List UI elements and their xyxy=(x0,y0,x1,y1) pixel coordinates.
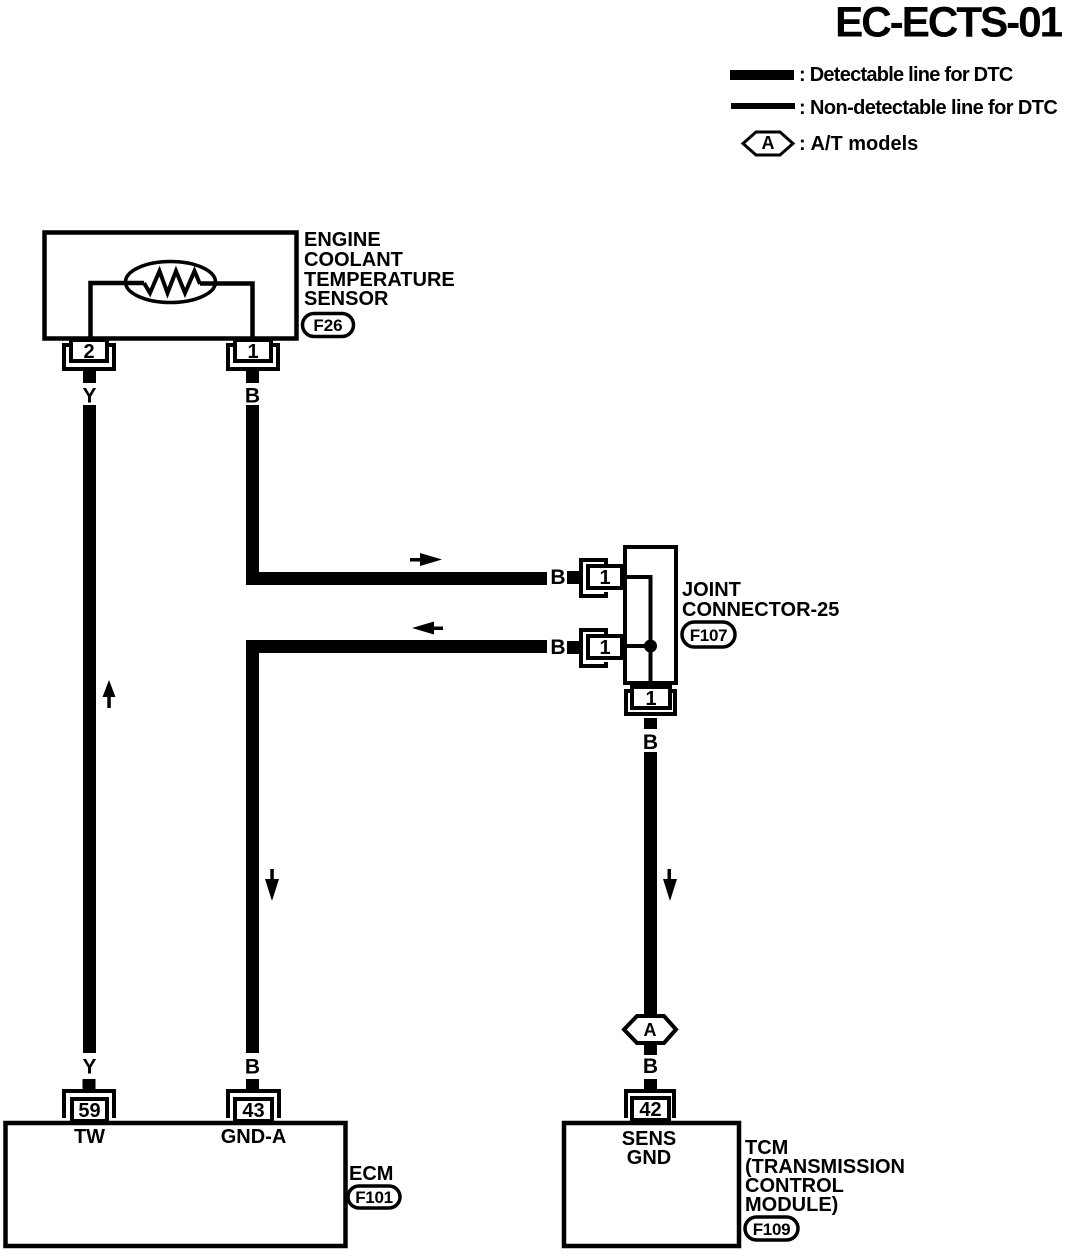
wire B (joint connector to TCM) xyxy=(644,752,657,1016)
svg-text:B: B xyxy=(643,731,658,754)
svg-text:Y: Y xyxy=(82,1056,96,1079)
svg-text:GND: GND xyxy=(627,1147,671,1169)
wire stub below pin 1 xyxy=(246,371,259,383)
wire B vertical (sensor pin 1 down) xyxy=(246,405,259,585)
joint connector middle pin 1 xyxy=(581,630,622,666)
svg-text:1: 1 xyxy=(599,567,610,589)
ECM pin 43 name GND-A xyxy=(221,1126,287,1148)
wire internal right (ellipse to pin 1) xyxy=(200,284,253,341)
legend non-detectable line text xyxy=(799,97,1057,119)
svg-text:1: 1 xyxy=(247,341,258,363)
TCM pin 42 name SENS GND xyxy=(622,1128,676,1169)
svg-text:: Detectable line for DTC: : Detectable line for DTC xyxy=(799,64,1013,86)
node Y label (sensor side) xyxy=(82,385,96,408)
svg-text:TW: TW xyxy=(74,1126,105,1148)
arrow up on wire Y xyxy=(103,680,116,708)
svg-text:F101: F101 xyxy=(355,1188,393,1207)
TCM box F109 xyxy=(564,1123,739,1246)
svg-text:A: A xyxy=(762,133,775,153)
node B label (ECM side) xyxy=(245,1056,260,1079)
A/T models hexagon on wire xyxy=(624,1016,676,1043)
svg-text:Y: Y xyxy=(82,385,96,408)
wire Y (sensor pin 2 to ECM 59) xyxy=(83,405,96,1053)
sensor connector pin 2 xyxy=(64,340,114,369)
connector code F26 xyxy=(303,314,354,337)
svg-text:B: B xyxy=(643,1055,658,1078)
legend detectable line text xyxy=(799,64,1013,86)
svg-text:MODULE): MODULE) xyxy=(745,1194,838,1216)
svg-text:: Non-detectable line for DTC: : Non-detectable line for DTC xyxy=(799,97,1057,119)
wire stub above ECM pin 59 xyxy=(83,1079,96,1090)
wire stub below hexagon xyxy=(644,1043,657,1055)
wire stub joint top pin xyxy=(567,571,580,584)
svg-text:ECM: ECM xyxy=(349,1163,393,1185)
joint connector body F107 xyxy=(625,547,676,683)
resistor zigzag xyxy=(144,271,200,293)
legend detectable line swatch xyxy=(730,70,794,80)
junction dot xyxy=(644,640,657,653)
svg-text:B: B xyxy=(550,566,565,589)
svg-text:: A/T models: : A/T models xyxy=(799,133,918,155)
wire B horizontal from joint connector middle pin xyxy=(246,640,547,653)
svg-text:F109: F109 xyxy=(753,1220,791,1239)
svg-text:GND-A: GND-A xyxy=(221,1126,287,1148)
joint connector top pin 1 xyxy=(581,560,622,596)
ECM name text xyxy=(349,1163,393,1185)
sensor box (ENGINE COOLANT TEMPERATURE SENSOR) xyxy=(45,233,297,339)
ECM pin 59 name TW xyxy=(74,1126,105,1148)
arrow down on wire B to TCM xyxy=(663,869,677,901)
svg-text:F26: F26 xyxy=(313,316,342,335)
svg-text:2: 2 xyxy=(83,341,94,363)
svg-text:1: 1 xyxy=(645,688,656,710)
svg-text:B: B xyxy=(245,1056,260,1079)
svg-text:ENGINE: ENGINE xyxy=(304,229,381,251)
wire stub joint middle pin xyxy=(567,641,580,654)
joint connector bottom pin 1 xyxy=(626,687,675,714)
svg-text:SENSOR: SENSOR xyxy=(304,288,389,310)
TCM name text xyxy=(745,1137,905,1216)
svg-text:EC-ECTS-01: EC-ECTS-01 xyxy=(835,0,1063,47)
legend non-detectable line swatch xyxy=(731,103,795,109)
svg-text:1: 1 xyxy=(599,637,610,659)
internal wire from top pin xyxy=(624,577,651,687)
node B label (joint middle pin) xyxy=(550,636,565,659)
arrow right on wire B xyxy=(410,553,442,566)
svg-text:F107: F107 xyxy=(690,626,728,645)
svg-text:B: B xyxy=(245,385,260,408)
sensor connector pin 1 xyxy=(228,340,278,369)
joint connector name text xyxy=(682,579,839,621)
wire B vertical (to ECM 43) xyxy=(246,640,259,1053)
internal wire from middle pin xyxy=(624,644,651,648)
node Y label (ECM side) xyxy=(82,1056,96,1079)
svg-text:JOINT: JOINT xyxy=(682,579,741,601)
wire stub above TCM pin 42 xyxy=(644,1079,657,1090)
node B label (joint top pin) xyxy=(550,566,565,589)
wire stub below joint bottom pin xyxy=(644,718,657,729)
wire stub above ECM pin 43 xyxy=(246,1079,259,1090)
thermistor ellipse xyxy=(126,262,216,303)
ECM box F101 xyxy=(6,1123,346,1246)
legend A/T models text xyxy=(799,133,918,155)
legend A/T models hexagon symbol xyxy=(743,132,793,155)
wire internal left (ellipse to pin 2) xyxy=(91,283,145,340)
svg-text:A: A xyxy=(644,1020,657,1040)
svg-text:59: 59 xyxy=(78,1100,100,1122)
svg-text:43: 43 xyxy=(242,1100,264,1122)
connector code F107 xyxy=(682,622,735,647)
arrow left on wire B return xyxy=(412,622,443,635)
connector code F101 xyxy=(348,1186,400,1208)
node B label (TCM side) xyxy=(643,1055,658,1078)
TCM connector pin 42 xyxy=(626,1091,674,1121)
ECM connector pin 59 xyxy=(64,1091,114,1122)
svg-text:B: B xyxy=(550,636,565,659)
wire stub below pin 2 xyxy=(83,371,96,383)
svg-text:CONNECTOR-25: CONNECTOR-25 xyxy=(682,599,839,621)
svg-text:COOLANT: COOLANT xyxy=(304,249,403,271)
node B label (sensor pin 1 side) xyxy=(245,385,260,408)
wire B horizontal to joint connector top pin xyxy=(246,572,547,585)
connector code F109 xyxy=(745,1217,798,1240)
ECM connector pin 43 xyxy=(228,1091,279,1122)
arrow down on wire B to ECM xyxy=(265,869,279,901)
node B label (joint bottom) xyxy=(643,731,658,754)
title EC-ECTS-01 xyxy=(835,0,1063,47)
svg-text:42: 42 xyxy=(639,1099,661,1121)
sensor name text xyxy=(304,229,455,310)
